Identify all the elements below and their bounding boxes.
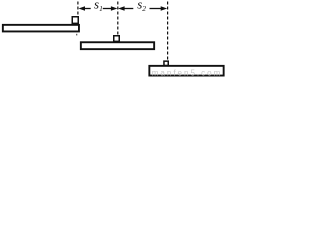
svg-text:manfen5.com: manfen5.com	[152, 69, 222, 77]
